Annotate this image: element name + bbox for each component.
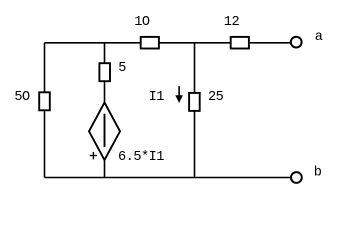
svg-text:1O: 1O [134,15,150,30]
resistor 50 (left branch, body) [39,92,50,110]
terminal b circle [291,172,302,183]
svg-text:5O: 5O [14,90,30,105]
wire top rail middle segment [159,42,231,44]
terminal a circle [291,37,302,48]
wire dependent source to bottom rail [104,160,106,178]
current arrow I1 head [175,95,183,103]
dependent source inner bar [104,114,106,147]
wire resistor 5 to dependent source [104,82,106,104]
current arrow I1 shaft [178,86,180,97]
wire left rail upper [44,43,46,92]
wire branch node at x=104.5 from top rail to resistor 5 [104,43,106,64]
svg-text:25: 25 [208,90,224,105]
wire left rail lower [44,111,46,178]
svg-text:6.5*I1: 6.5*I1 [118,150,164,165]
resistor 5 (middle branch, body) [99,63,110,81]
svg-text:5: 5 [118,61,126,76]
resistor 25 (right middle branch, body) [189,93,200,111]
dependent source diamond 6.5*I1 [89,103,120,161]
svg-text:b: b [314,166,322,181]
wire top rail right segment to terminal a [249,42,291,44]
wire branch node at x=194.5 from top rail to resistor 25 [194,43,196,93]
svg-text:12: 12 [224,15,240,30]
plus sign of dependent source [90,152,97,160]
svg-text:I1: I1 [149,90,165,105]
resistor 10 (top rail, body) [141,37,159,49]
wire bottom rail [45,177,292,179]
svg-text:a: a [315,30,323,45]
wire top rail left segment [45,42,141,44]
resistor 12 (top rail, body) [231,37,249,49]
wire resistor 25 to bottom rail [194,111,196,178]
